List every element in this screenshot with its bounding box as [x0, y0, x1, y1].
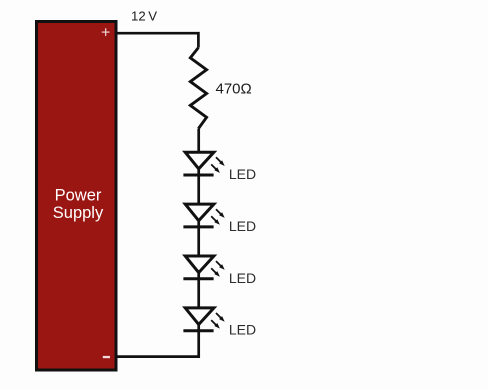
resistor R1 — [190, 48, 206, 129]
LED D3 — [183, 256, 224, 280]
svg-text:LED: LED — [229, 322, 256, 338]
svg-text:+: + — [101, 25, 110, 42]
wire D1 to D2 — [197, 175, 200, 205]
wire positive from PS to resistor — [116, 33, 198, 47]
wire resistor to D1 — [197, 129, 200, 154]
wire D2 to D3 — [197, 227, 200, 257]
LED D1 — [183, 152, 224, 176]
LED D2 — [183, 204, 224, 228]
svg-text:LED: LED — [229, 218, 256, 234]
- terminal — [103, 356, 110, 358]
svg-text:Supply: Supply — [53, 204, 104, 222]
svg-text:470Ω: 470Ω — [216, 81, 252, 98]
wire D3 to D4 — [197, 279, 200, 309]
LED D4 — [183, 308, 224, 332]
wire negative return D4 to PS — [116, 331, 199, 357]
svg-text:Power: Power — [55, 187, 102, 205]
svg-text:12 V: 12 V — [131, 9, 157, 24]
svg-text:LED: LED — [229, 270, 256, 286]
svg-text:LED: LED — [229, 166, 256, 182]
power supply PS1 — [37, 22, 117, 371]
